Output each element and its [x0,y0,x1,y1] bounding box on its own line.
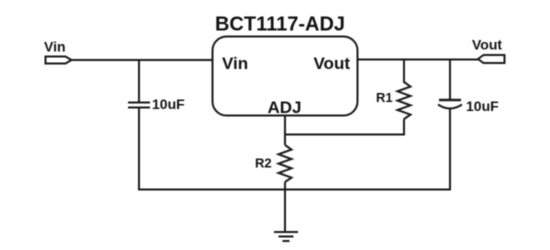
wire R1 bottom lead [403,119,405,135]
wire left branch upper [138,60,140,102]
svg-text:10uF: 10uF [466,98,499,114]
capacitor C1 plates [128,103,150,108]
port Vout [478,55,505,63]
wire right branch upper [449,60,451,101]
wire bottom rail [138,189,451,191]
wire ADJ pin lead [284,115,286,145]
capacitor C2 top plate [439,99,461,102]
svg-text:10uF: 10uF [152,96,185,112]
svg-text:Vin: Vin [222,54,248,73]
wire right branch lower [449,109,451,191]
svg-text:Vout: Vout [472,37,502,53]
wire output rail [358,59,479,61]
svg-text:R1: R1 [376,90,393,105]
wire R1 top lead [403,60,405,84]
resistor R2 [279,145,292,182]
svg-text:Vin: Vin [44,39,66,55]
svg-text:R2: R2 [255,156,272,171]
svg-text:BCT1117-ADJ: BCT1117-ADJ [215,14,345,36]
resistor R1 [398,82,411,119]
wire input rail [70,59,212,61]
op-amp U1 regulator body [213,37,358,116]
wire R2 bottom lead [284,182,286,231]
svg-text:ADJ: ADJ [267,98,301,117]
port Vin [46,57,72,64]
svg-text:Vout: Vout [313,54,350,73]
wire adjust horizontal [285,134,405,136]
wire left branch lower [138,108,140,191]
ground [274,232,298,241]
capacitor C2 curved plate [438,105,462,109]
